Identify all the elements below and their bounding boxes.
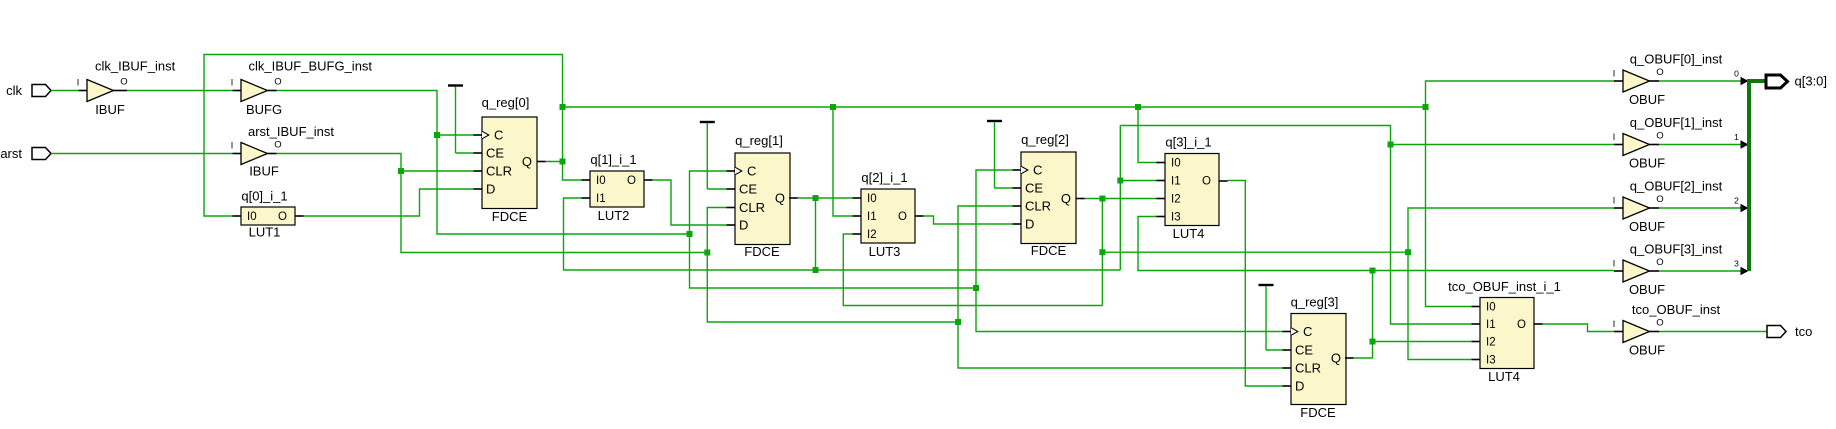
svg-text:I1: I1 [1486, 319, 1496, 331]
junction q[0] at x1138 [1135, 104, 1141, 110]
pin stub D of q_reg[0] [474, 188, 483, 190]
pin stub O of q[3]_i_1 [1219, 180, 1228, 182]
pin stub CLR of q_reg[3] [1283, 367, 1292, 369]
svg-text:CLR: CLR [739, 200, 765, 215]
svg-text:I3: I3 [1486, 355, 1496, 367]
pin stub O of q_OBUF[0]_inst [1650, 80, 1660, 82]
VCC const1 for q_reg[0] CE [448, 84, 463, 86]
wire q[1]_i_1 O to q_reg[1] D [653, 180, 727, 225]
svg-text:I: I [231, 78, 234, 88]
wire tco OBUF output to port [1659, 331, 1767, 333]
wire arst spine segment 2 [707, 253, 958, 323]
svg-text:O: O [898, 211, 907, 223]
junction arst at q_reg[0] CLR [398, 168, 404, 174]
wire arst to q_reg[0] CLR [401, 170, 474, 172]
wire q[1] drop [815, 198, 817, 270]
svg-text:O: O [1517, 319, 1526, 331]
FDCE q_reg[2] [1021, 152, 1076, 244]
svg-text:C: C [747, 164, 756, 179]
pin stub I1 of q[1]_i_1 [582, 197, 591, 199]
svg-text:O: O [627, 175, 636, 187]
bus q[3:0] horizontal to port [1747, 79, 1766, 83]
wire q[3] east to OBUF3 [1373, 270, 1615, 272]
svg-text:q_reg[0]: q_reg[0] [482, 95, 530, 110]
svg-text:I2: I2 [1486, 337, 1496, 349]
pin stub I0 of q[3]_i_1 [1157, 162, 1166, 164]
svg-text:OBUF: OBUF [1629, 219, 1665, 234]
wire q[0] drop to q[3]_i_1 I0 [1138, 107, 1157, 163]
wire q[2] loop to LUT3 I2 [843, 234, 1102, 306]
pin stub I of q_OBUF[2]_inst [1614, 207, 1623, 209]
svg-text:CE: CE [739, 182, 757, 197]
wire arst riser to q_reg[1] CLR [707, 208, 726, 253]
svg-text:FDCE: FDCE [1031, 243, 1067, 258]
junction arst at x707 [704, 250, 710, 256]
svg-text:CLR: CLR [1295, 361, 1321, 376]
pin stub I2 of q[3]_i_1 [1157, 198, 1166, 200]
wire q[2] drop [1101, 199, 1103, 306]
junction q[3] at I2 feed [1370, 339, 1376, 345]
wire clock to q_reg[3] C [976, 288, 1283, 332]
wire q[0] to tco LUT I0 [1426, 107, 1472, 307]
svg-text:I0: I0 [1171, 158, 1181, 170]
svg-text:OBUF: OBUF [1629, 156, 1665, 171]
svg-text:I0: I0 [867, 193, 877, 205]
pin stub CLR of q_reg[0] [474, 170, 483, 172]
svg-text:I3: I3 [1171, 212, 1181, 224]
svg-text:CE: CE [1295, 343, 1313, 358]
svg-text:q_reg[2]: q_reg[2] [1021, 132, 1069, 147]
wire q[0] drop to LUT3 I1 [833, 107, 853, 216]
svg-text:O: O [1202, 176, 1211, 188]
FDCE q_reg[0] [482, 117, 537, 209]
junction q[1] at I1 of q[3]_i_1 [1117, 178, 1123, 184]
svg-text:BUFG: BUFG [246, 102, 282, 117]
svg-text:q[3:0]: q[3:0] [1795, 74, 1828, 89]
wire q[2] down to tco LUT I3 [1408, 252, 1472, 359]
svg-text:0: 0 [1734, 69, 1739, 79]
wire q[3] west to q[3]_i_1 I3 [1138, 217, 1373, 271]
wire q[2] east at y252 [1102, 251, 1408, 253]
svg-text:I: I [231, 141, 234, 151]
svg-text:arst: arst [0, 146, 22, 161]
bus arrowhead bit 2 [1741, 204, 1749, 213]
buffer U clk_IBUF_BUFG_inst (BUFG) [241, 80, 268, 102]
junction q[1] at y270 [813, 267, 819, 273]
svg-text:CLR: CLR [486, 164, 512, 179]
svg-text:clk_IBUF_BUFG_inst: clk_IBUF_BUFG_inst [249, 59, 373, 74]
svg-text:q_OBUF[3]_inst: q_OBUF[3]_inst [1630, 242, 1723, 257]
pin stub Q of q_reg[3] [1345, 357, 1354, 359]
wire q[1] to OBUF1 [1391, 144, 1615, 146]
pin stub I3 of tco_OBUF_inst_i_1 [1472, 359, 1481, 361]
wire OBUF1 output [1659, 144, 1741, 146]
svg-text:Q: Q [1331, 351, 1341, 366]
svg-text:C: C [1033, 163, 1042, 178]
wire q[0] to OBUF0 [1426, 81, 1615, 107]
buffer q_OBUF[3]_inst (OBUF) [1623, 260, 1650, 282]
pin stub I of q_OBUF[1]_inst [1614, 144, 1623, 146]
pin stub I2 of tco_OBUF_inst_i_1 [1472, 341, 1481, 343]
FDCE q_reg[1] [735, 153, 790, 245]
svg-text:tco_OBUF_inst: tco_OBUF_inst [1632, 302, 1721, 317]
pin stub I of BUFG [233, 90, 242, 92]
junction clock at x976 [973, 285, 979, 291]
svg-text:I: I [1613, 319, 1616, 329]
junction q[0] at x833 [830, 104, 836, 110]
svg-text:q_OBUF[1]_inst: q_OBUF[1]_inst [1630, 115, 1723, 130]
svg-text:q[3]_i_1: q[3]_i_1 [1165, 135, 1211, 150]
svg-text:I1: I1 [596, 193, 606, 205]
wire q[2] up to OBUF2 [1408, 208, 1614, 252]
pin stub O of q_OBUF[1]_inst [1650, 144, 1660, 146]
svg-text:LUT4: LUT4 [1173, 226, 1205, 241]
svg-text:O: O [274, 140, 281, 151]
svg-text:Q: Q [1061, 191, 1071, 206]
svg-text:I2: I2 [867, 229, 877, 241]
wire arst_IBUF from IBUF [277, 154, 708, 253]
LUT2 q[1]_i_1 [590, 171, 644, 207]
pin stub Q of q_reg[2] [1076, 198, 1085, 200]
svg-text:I: I [77, 78, 80, 88]
svg-text:OBUF: OBUF [1629, 92, 1665, 107]
wire arst port to IBUF [51, 153, 233, 155]
wire clock spine segment 2 [690, 234, 977, 288]
LUT3 q[2]_i_1 [861, 189, 915, 243]
pin stub O of q[1]_i_1 [644, 179, 653, 181]
junction q[0] at y106 [560, 104, 566, 110]
pin stub CE of q_reg[1] [727, 188, 736, 190]
bus q[3:0] vertical [1747, 79, 1751, 271]
pin stub O of arst_IBUF_inst [268, 153, 277, 155]
svg-text:Q: Q [522, 154, 532, 169]
pin stub I1 of q[2]_i_1 [853, 215, 862, 217]
pin stub O of BUFG [268, 90, 277, 92]
svg-text:CE: CE [1025, 181, 1043, 196]
svg-text:2: 2 [1734, 196, 1739, 206]
pin stub I2 of q[2]_i_1 [853, 233, 862, 235]
svg-text:C: C [494, 128, 503, 143]
wire OBUF0 output [1659, 80, 1741, 82]
wire q[3]_i_1 O to q_reg[3] D [1228, 181, 1283, 387]
junction q[0] at Q [560, 159, 566, 165]
pin stub O of tco_OBUF_inst [1650, 331, 1660, 333]
svg-text:D: D [1295, 379, 1304, 394]
svg-text:q[1]_i_1: q[1]_i_1 [590, 152, 636, 167]
LUT1 q[0]_i_1 [241, 207, 295, 225]
svg-text:q_reg[1]: q_reg[1] [735, 133, 783, 148]
buffer q_OBUF[1]_inst (OBUF) [1623, 134, 1650, 156]
junction q[2] at x1408 [1405, 249, 1411, 255]
svg-text:LUT3: LUT3 [869, 244, 901, 259]
bus arrowhead bit 1 [1741, 140, 1749, 149]
pin stub CLR of q_reg[1] [727, 207, 736, 209]
VCC const1 for q_reg[3] CE [1259, 284, 1274, 286]
svg-text:I: I [1613, 69, 1616, 79]
svg-text:FDCE: FDCE [1300, 405, 1336, 420]
wire q[0] from q_reg[0] Q [546, 161, 563, 163]
junction q[2] at Q [1099, 196, 1105, 202]
svg-text:Q: Q [775, 191, 785, 206]
wire q[2] from q_reg[2] Q to q[3]_i_1 I2 [1085, 198, 1157, 200]
svg-text:3: 3 [1734, 259, 1739, 269]
wire q[1] from q_reg[1] Q [798, 197, 816, 199]
wire q[0] top feedback to LUT1 [204, 55, 563, 217]
svg-text:arst_IBUF_inst: arst_IBUF_inst [248, 124, 334, 139]
pin stub I0 of q[2]_i_1 [853, 197, 862, 199]
junction q[2] at y252 [1099, 249, 1105, 255]
svg-text:q[0]_i_1: q[0]_i_1 [241, 189, 287, 204]
bus arrowhead bit 0 [1741, 77, 1749, 86]
output port tco [1767, 326, 1786, 338]
wire q[0]_i_1 O to q_reg[0] D [304, 189, 474, 216]
junction clock at x689 [687, 231, 693, 237]
svg-text:CE: CE [486, 146, 504, 161]
pin stub CE of q_reg[2] [1013, 187, 1022, 189]
svg-text:clk_IBUF_inst: clk_IBUF_inst [95, 59, 176, 74]
VCC const1 for q_reg[1] CE [700, 121, 715, 123]
svg-text:O: O [274, 77, 281, 88]
wire net clk_IBUF [127, 90, 233, 92]
svg-text:I2: I2 [1171, 194, 1181, 206]
wire q[1] riser x1120 [1119, 126, 1121, 271]
LUT4 q[3]_i_1 [1165, 154, 1219, 226]
buffer U clk_IBUF_inst (IBUF) [87, 80, 114, 102]
pin stub D of q_reg[1] [727, 224, 736, 226]
pin stub Q of q_reg[0] [537, 161, 546, 163]
svg-text:LUT2: LUT2 [598, 208, 630, 223]
svg-text:O: O [1656, 131, 1663, 142]
svg-text:D: D [1025, 217, 1034, 232]
wire q[0] down to LUT2 I0 [563, 162, 582, 181]
svg-text:D: D [486, 182, 495, 197]
pin stub I0 of tco_OBUF_inst_i_1 [1472, 306, 1481, 308]
wire clock to q_reg[0] C [437, 134, 474, 136]
wire q[1] to q[3]_i_1 I1 [1120, 180, 1156, 182]
pin stub CE of q_reg[0] [474, 152, 483, 154]
svg-text:OBUF: OBUF [1629, 282, 1665, 297]
svg-text:I: I [1613, 196, 1616, 206]
svg-text:O: O [1656, 257, 1663, 268]
pin stub CLR of q_reg[2] [1013, 205, 1022, 207]
pin stub I0 of q[1]_i_1 [582, 179, 591, 181]
junction q[3] at y270 [1370, 268, 1376, 274]
pin stub I1 of tco_OBUF_inst_i_1 [1472, 323, 1481, 325]
svg-text:LUT4: LUT4 [1488, 369, 1520, 384]
wire q[1] top segment [1120, 126, 1471, 325]
pin stub D of q_reg[3] [1283, 385, 1292, 387]
pin stub I of arst_IBUF_inst [233, 153, 242, 155]
junction q[0] at x1425 [1423, 104, 1429, 110]
wire q[2]_i_1 O to q_reg[2] D [924, 216, 1013, 224]
svg-text:q_OBUF[0]_inst: q_OBUF[0]_inst [1630, 52, 1723, 67]
svg-text:LUT1: LUT1 [249, 225, 281, 240]
pin stub I of clk_IBUF_inst [79, 90, 88, 92]
pin stub CE of q_reg[3] [1283, 349, 1292, 351]
wire q[3] from q_reg[3] Q [1354, 271, 1373, 359]
pin stub O of q[2]_i_1 [915, 215, 924, 217]
svg-text:1: 1 [1734, 132, 1739, 142]
svg-text:FDCE: FDCE [744, 244, 780, 259]
wire clk_IBUF_BUFG from BUFG [277, 91, 690, 235]
wire tco LUT O to OBUF [1543, 324, 1615, 332]
bus arrowhead bit 3 [1741, 267, 1749, 276]
pin stub C of q_reg[3] [1283, 331, 1292, 333]
wire q[1] loop back to LUT2 I1 [564, 198, 816, 270]
wire arst to q_reg[3] CLR [958, 322, 1283, 368]
LUT4 tco_OBUF_inst_i_1 [1480, 298, 1534, 369]
input port clk [32, 85, 51, 97]
wire q[1] east at y270 [816, 269, 1121, 271]
pin stub I of q_OBUF[0]_inst [1614, 80, 1623, 82]
svg-text:I: I [1613, 259, 1616, 269]
svg-text:CLR: CLR [1025, 199, 1051, 214]
wire arst riser to q_reg[2] CLR [958, 206, 1013, 322]
svg-text:q_reg[3]: q_reg[3] [1291, 295, 1339, 310]
pin stub C of q_reg[2] [1013, 169, 1022, 171]
svg-text:IBUF: IBUF [95, 102, 125, 117]
buffer q_OBUF[0]_inst (OBUF) [1623, 70, 1650, 92]
svg-text:O: O [120, 77, 127, 88]
svg-text:O: O [1656, 318, 1663, 329]
svg-text:I0: I0 [596, 175, 606, 187]
pin stub O of tco_OBUF_inst_i_1 [1534, 323, 1543, 325]
pin stub C of q_reg[0] [474, 134, 483, 136]
pin stub O of q[0]_i_1 [295, 215, 304, 217]
pin stub O of q_OBUF[2]_inst [1650, 207, 1660, 209]
wire clock riser to q_reg[1] C [690, 171, 727, 234]
svg-text:I1: I1 [867, 211, 877, 223]
wire q[0] horizontal rail [563, 106, 1426, 108]
svg-text:tco: tco [1795, 324, 1812, 339]
svg-text:tco_OBUF_inst_i_1: tco_OBUF_inst_i_1 [1448, 279, 1561, 294]
pin stub I of tco_OBUF_inst [1614, 331, 1623, 333]
output port q[3:0] [1766, 75, 1788, 88]
pin stub I3 of q[3]_i_1 [1157, 216, 1166, 218]
junction clock at q_reg[0] C [434, 132, 440, 138]
buffer U arst_IBUF_inst (IBUF) [241, 143, 268, 165]
FDCE q_reg[3] [1291, 314, 1346, 405]
svg-text:q[2]_i_1: q[2]_i_1 [861, 170, 907, 185]
svg-text:clk: clk [6, 83, 22, 98]
junction q[1] at OBUF1 row [1388, 142, 1394, 148]
wire q[3] to tco LUT I2 [1373, 341, 1472, 343]
buffer q_OBUF[2]_inst (OBUF) [1623, 197, 1650, 219]
wire OBUF3 output [1659, 270, 1741, 272]
svg-text:IBUF: IBUF [249, 164, 279, 179]
wire OBUF2 output [1659, 207, 1741, 209]
pin stub Q of q_reg[1] [789, 197, 798, 199]
svg-text:C: C [1303, 324, 1312, 339]
pin stub I of q_OBUF[3]_inst [1614, 270, 1623, 272]
wire q[0] up to top rail [562, 107, 564, 162]
svg-text:O: O [278, 211, 287, 223]
input port arst [32, 148, 51, 160]
svg-text:D: D [739, 218, 748, 233]
wire clock riser to q_reg[2] C [976, 170, 1013, 288]
svg-text:I0: I0 [1486, 302, 1496, 314]
svg-text:I1: I1 [1171, 176, 1181, 188]
svg-text:q_OBUF[2]_inst: q_OBUF[2]_inst [1630, 179, 1723, 194]
pin stub I0 of q[0]_i_1 [233, 215, 242, 217]
wire q[1] to LUT3 I0 [816, 197, 853, 199]
pin stub O of clk_IBUF_inst [114, 90, 128, 92]
junction arst at x958 [955, 319, 961, 325]
junction q[1] at Q [813, 195, 819, 201]
pin stub I1 of q[3]_i_1 [1157, 180, 1166, 182]
svg-text:I: I [1613, 132, 1616, 142]
VCC const1 for q_reg[2] CE [987, 120, 1002, 122]
wire clk port to IBUF [51, 90, 79, 92]
svg-text:FDCE: FDCE [492, 209, 528, 224]
svg-text:OBUF: OBUF [1629, 343, 1665, 358]
pin stub D of q_reg[2] [1013, 223, 1022, 225]
buffer tco_OBUF_inst (OBUF) [1623, 321, 1650, 343]
pin stub O of q_OBUF[3]_inst [1650, 270, 1660, 272]
svg-text:O: O [1656, 67, 1663, 78]
pin stub C of q_reg[1] [727, 170, 736, 172]
svg-text:O: O [1656, 194, 1663, 205]
svg-text:I0: I0 [247, 211, 257, 223]
